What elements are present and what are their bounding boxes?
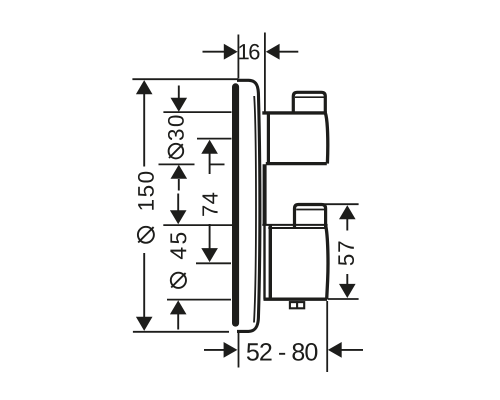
dimension 16: right extension line (264, 33, 266, 112)
extension line top of upper handle (Ø30 top) (163, 111, 231, 113)
label 74 (202, 193, 217, 216)
arrow 74 bottom (points down) (201, 248, 218, 262)
extension line top of plate (Ø150 top) (132, 78, 238, 80)
safety stop tab under lower handle (290, 302, 304, 308)
dimension 74: upper stem (209, 153, 211, 174)
escutcheon plate inner contour (254, 96, 256, 323)
safety stop tab divider (296, 301, 298, 308)
arrow Ø30 bottom (points up) (171, 165, 188, 179)
label 52-80 (247, 343, 318, 361)
lower handle cap (295, 205, 326, 229)
dimension 74: lower stem (209, 224, 211, 249)
dimension 52-80: left extension line (238, 333, 240, 368)
dimension 16: right leader line (279, 51, 298, 53)
arrow 52-80 left (points right) (224, 342, 238, 358)
label 16 (239, 44, 259, 60)
dimension 16: left leader line (203, 51, 225, 53)
upper handle cap inner line (295, 96, 324, 98)
dimension Ø45: upper stem (177, 194, 179, 212)
valve sleeve edge (263, 164, 267, 225)
extension line top of lower handle (Ø45 top) (163, 224, 232, 226)
extension line bottom of plate (Ø150 bottom) (133, 331, 229, 333)
dimension 16: left extension line (237, 35, 239, 79)
dimension 52-80: right extension line (326, 301, 328, 372)
escutcheon plate back strip (wall side) (232, 83, 239, 326)
upper handle cap (293, 92, 325, 113)
extension line bottom of lower handle (Ø45 bottom) (167, 299, 231, 301)
dimension 52-80: left leader line (204, 349, 224, 351)
upper handle left face (267, 113, 270, 163)
lower handle left face (269, 225, 272, 299)
upper handle top edge (262, 111, 327, 114)
label Ø45 (170, 233, 186, 288)
lower handle cap inner line (296, 209, 324, 211)
dimension 52-80: right leader line (341, 349, 363, 351)
upper handle right face (325, 113, 327, 163)
arrow 74 top (points up) (201, 140, 218, 154)
lower handle right face (326, 226, 328, 300)
label Ø150 (138, 172, 154, 243)
arrow 57 top (points up) (339, 205, 356, 219)
center line lower handle (74 bottom) (196, 262, 231, 264)
extension line bottom of upper handle (Ø30 bottom) (159, 163, 195, 165)
dimension Ø30: upper stem (178, 86, 180, 100)
arrow Ø150 bottom (points down) (136, 317, 153, 331)
label Ø30 (168, 115, 184, 158)
arrow Ø45 bottom (points up) (170, 300, 187, 314)
lower handle bottom edge (264, 298, 328, 301)
upper handle bottom edge (266, 162, 327, 165)
dimension Ø30: lower stem (178, 179, 180, 191)
escutcheon plate outline (237, 80, 260, 331)
label 57 (338, 242, 354, 266)
dimension 57: top extension line (318, 203, 359, 205)
dimension 57: lower stem (346, 274, 348, 284)
arrow 16 left (points right) (224, 44, 238, 60)
dimension 57: upper stem (346, 219, 348, 231)
arrows (filled) (136, 44, 356, 358)
dimension Ø45: lower stem (177, 314, 179, 330)
arrow Ø150 top (points up) (136, 80, 153, 94)
arrow Ø30 top (points down) (171, 98, 188, 112)
dimension Ø150: line lower segment (143, 253, 145, 319)
arrow 16 right (points left) (266, 44, 280, 60)
arrow Ø45 top (points down) (170, 210, 187, 224)
dimension Ø150: line upper segment (143, 93, 145, 167)
dimension 57: bottom extension line (328, 298, 359, 300)
center line upper handle (74 top) (197, 138, 232, 140)
arrow 52-80 right (points left) (328, 342, 342, 358)
arrow 57 bottom (points down) (339, 284, 356, 298)
lower handle top edge (262, 224, 327, 226)
